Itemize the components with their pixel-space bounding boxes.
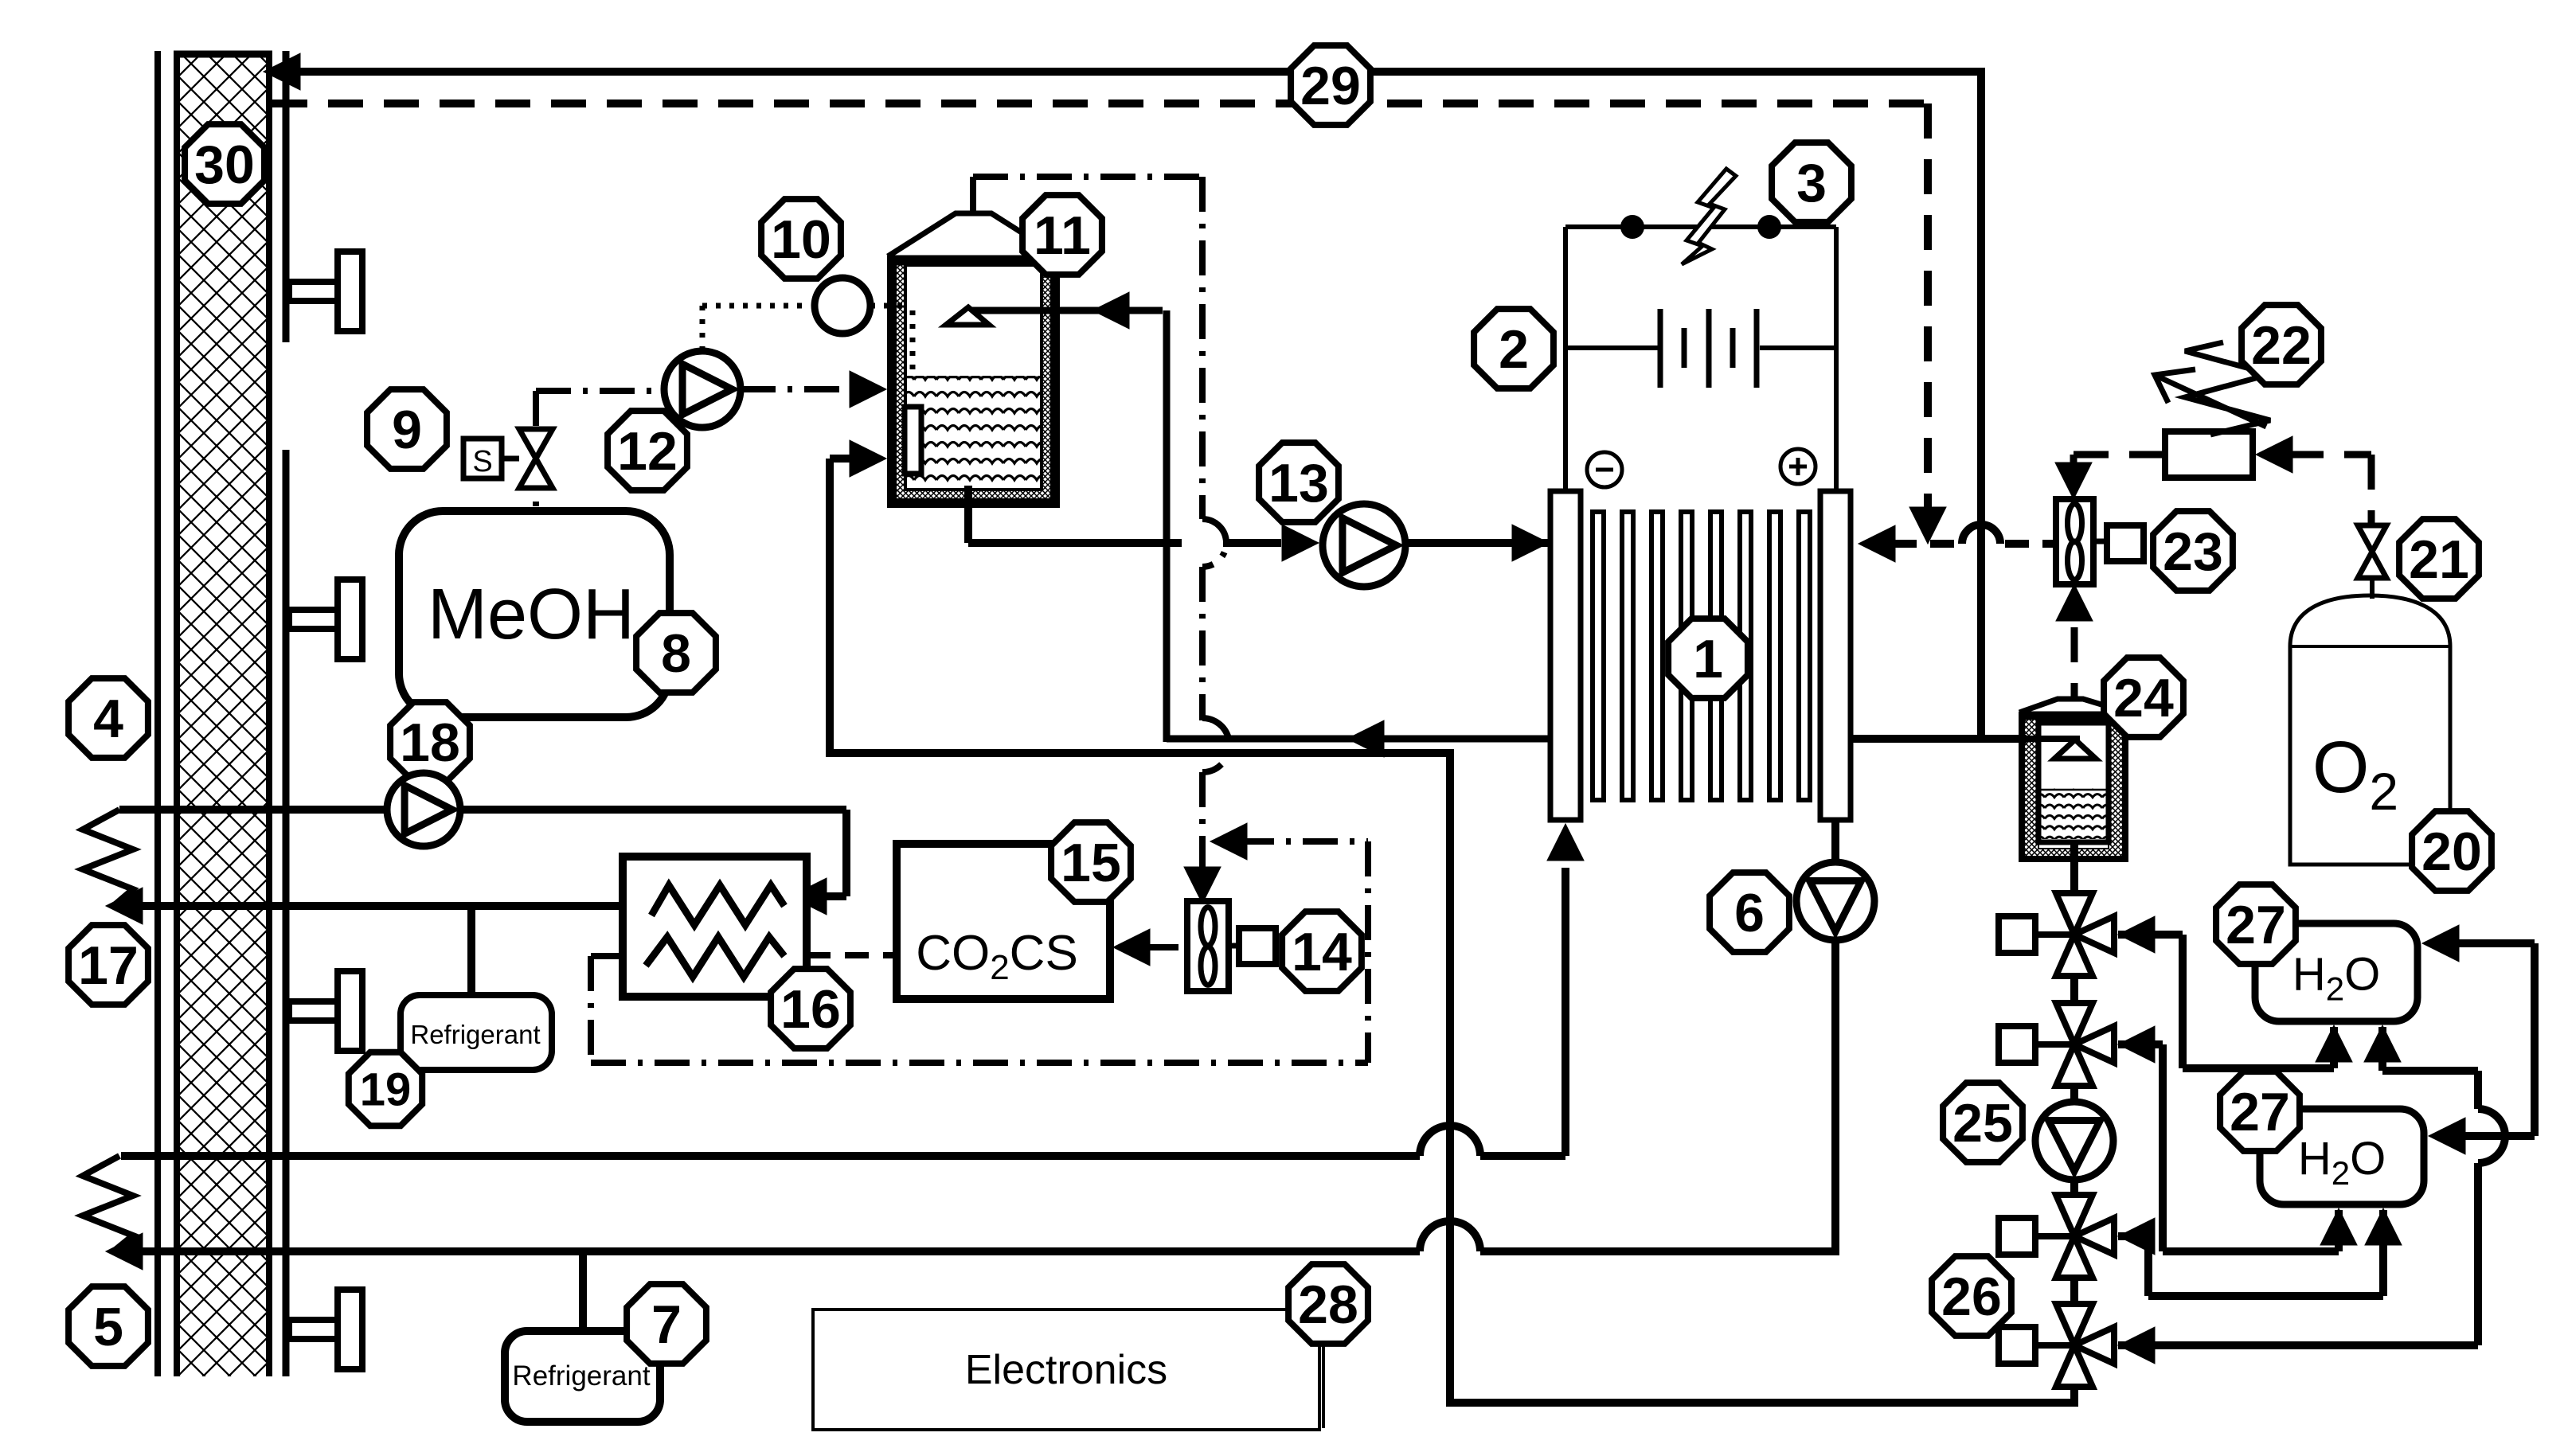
wire: separator 24 drain to valve 1 (2070, 865, 2078, 895)
arrowhead into heater 5 (106, 1233, 143, 1270)
label octagon 14 (1282, 911, 1362, 991)
three-way valve 3 of drain chain (2035, 1233, 2074, 1239)
label octagon 25 (1943, 1083, 2023, 1162)
svg-text:20: 20 (2421, 822, 2482, 882)
regulator 22 relief spring (2185, 342, 2270, 435)
wire: dashed HX to CO2CS (807, 952, 897, 958)
separator 24 inlet line (2013, 736, 2080, 742)
hull mounting bracket (289, 282, 338, 301)
svg-text:3: 3 (1796, 153, 1827, 213)
arrowhead left at fan corner (1210, 823, 1247, 860)
HX 16 top coil zigzag (651, 885, 784, 925)
arrowhead up into H2O1 bottom-right (2364, 1025, 2401, 1062)
arrowhead into CO2CS (1113, 929, 1150, 966)
arrowhead into tank 11 float line (1092, 292, 1129, 329)
svg-text:24: 24 (2113, 668, 2174, 728)
arrowhead into H2O1 right (2422, 925, 2459, 962)
solenoid valve 9 (463, 439, 502, 478)
wire: H2O right-side rail (2531, 943, 2539, 1136)
arrowhead into valve 1 (2118, 916, 2155, 953)
lightning bolt symbol (1682, 169, 1736, 264)
hull inner skin line (283, 51, 290, 342)
label octagon 26 (1932, 1256, 2011, 1336)
arrowhead into HX top coil (790, 878, 827, 915)
label octagon 15 (1051, 822, 1131, 902)
fan 14 motor square (1239, 928, 1276, 964)
fuel cell stack 1 left end plate (1550, 491, 1581, 820)
arrowhead into stack anode inlet (1512, 525, 1549, 561)
fuel cell stack 1 fins (1593, 512, 1604, 800)
wire: line 29 solid exhaust pipe (291, 72, 1981, 739)
heat exchanger 16 shell (623, 857, 807, 997)
svg-text:30: 30 (194, 135, 255, 195)
label octagon 10 (761, 199, 841, 279)
wire: pump25-valve3 link (2070, 1180, 2078, 1196)
wire: stack cathode outlet to separator 24 (1851, 735, 2027, 743)
arrowhead down into fan 14 (1184, 867, 1221, 904)
separator 24 roof (2019, 699, 2128, 712)
wire: dotted dip tube (inner) (910, 310, 916, 373)
label octagon 29 (1291, 45, 1370, 125)
wire: valve3-valve4 link (2070, 1276, 2078, 1306)
pump 25 (2035, 1102, 2113, 1180)
tank 11 hatched wall (888, 256, 1059, 507)
label octagon 18 (390, 702, 470, 782)
wire: dash-dot from HX bottom coil (591, 953, 646, 959)
pump 13 (1323, 504, 1405, 587)
wire: refrigerant 7 branch (579, 1251, 587, 1331)
label octagon 20 (2412, 811, 2492, 891)
svg-text:16: 16 (780, 979, 841, 1040)
label octagon 4 (68, 678, 148, 758)
wire: pump 6 return line to heater 5 (137, 1247, 1420, 1255)
HX 16 bottom coil zigzag (646, 937, 784, 977)
hull mounting bracket (289, 1320, 338, 1339)
terminal dot right (1757, 215, 1781, 239)
arrowhead up into fan 23 bottom (2056, 584, 2093, 621)
svg-text:Refrigerant: Refrigerant (410, 1020, 540, 1049)
wire: valve 1 feed from H2O tank (2118, 931, 2183, 939)
tank 11 top plate (888, 256, 1059, 266)
wire: dash-dot return line to fan 14 corner (1239, 838, 1368, 845)
separator 24 hatched wall (2019, 712, 2128, 861)
svg-text:4: 4 (93, 689, 123, 749)
terminal dot left (1620, 215, 1644, 239)
label octagon 27a (2216, 884, 2296, 964)
svg-text:7: 7 (651, 1294, 682, 1355)
pressure regulator 22 (2165, 431, 2253, 478)
pump 6 (1796, 862, 1874, 940)
arrowhead into regulator 22 (2256, 436, 2292, 473)
wire: dashed O2 from tank 21 to regulator 22 (2368, 455, 2375, 525)
tank 11 liquid (907, 376, 1040, 488)
svg-text:10: 10 (771, 209, 831, 270)
label octagon 2 (1474, 309, 1554, 388)
wire: anode feed line (heater 5 to stack) (121, 1152, 1420, 1160)
fan 23 motor square (2107, 525, 2144, 561)
arrowhead up into stack anode bottom (1547, 824, 1584, 861)
arrowhead up into H2O1 bottom-left (2316, 1025, 2352, 1062)
wire: tank outlet stub through bottom wall (964, 486, 972, 525)
separator 24 top plate (2019, 712, 2128, 720)
wire: dotted dip tube in tank 11 (870, 303, 913, 309)
svg-text:22: 22 (2251, 315, 2312, 376)
svg-text:25: 25 (1952, 1093, 2013, 1153)
svg-text:Electronics: Electronics (965, 1347, 1167, 1393)
svg-text:MeOH: MeOH (428, 575, 635, 654)
svg-text:18: 18 (400, 712, 460, 773)
wire: coolant supply line (heater 17 to pump 18 to HX 16) (119, 806, 387, 814)
hull insulation band 30 (hatched) (174, 51, 272, 1376)
arrowhead on anode return (left) (1347, 720, 1384, 757)
hull outer skin line (154, 51, 161, 1376)
pump 18 (387, 773, 460, 846)
battery 2 plates (1658, 309, 1663, 388)
wire: valve 4 feed from H2O tank (2118, 1341, 2478, 1349)
label octagon 3 (1772, 142, 1851, 222)
tank 11 roof (888, 213, 1059, 256)
arrowhead down into fan 23 (2055, 463, 2092, 499)
wire: dotted level signal pump12-sensor10 (700, 306, 706, 351)
label octagon 21 (2399, 519, 2479, 599)
wire: coolant return line (HX 16 to heater 17) (137, 902, 623, 910)
wire: fan 14 to CO2CS (dash-dot) (1143, 944, 1187, 950)
tank 11 float symbol (946, 307, 989, 325)
label octagon 17 (68, 925, 148, 1005)
wire: stack anode return to tank 11 (1167, 736, 1550, 743)
label octagon 13 (1259, 443, 1339, 522)
wire: stack to pump 6 (1831, 820, 1839, 862)
refrigerant box 7 (505, 1331, 660, 1422)
H2O tank 27b (2260, 1109, 2424, 1204)
arrowhead into stack cathode (dashed) (1859, 525, 1895, 562)
arrowhead into valve 2 (2118, 1026, 2155, 1063)
label octagon 9 (367, 389, 447, 469)
fan 23 (2056, 499, 2093, 584)
label octagon 6 (1710, 872, 1789, 952)
sensor 10 circle (815, 278, 870, 334)
heater 17 zigzag element (83, 810, 133, 908)
wire: tank 11 outlet to pump 13 (964, 503, 972, 543)
wire: MeOH feed (dash-dot) through valve 9 to pump 12 (533, 391, 539, 511)
MeOH tank 8 (399, 511, 670, 717)
svg-text:Refrigerant: Refrigerant (512, 1360, 650, 1392)
wire: dashed separator 24 to fan 23 (2071, 627, 2078, 697)
wire: dashed air line 29a (272, 100, 1928, 107)
wire: dash-dot riser x1718 (1365, 841, 1371, 1063)
svg-text:19: 19 (360, 1064, 412, 1116)
wire: anode return stub through tank wall (966, 307, 1071, 314)
wire: octagon 28 leader line (1322, 1343, 1325, 1428)
fan 14 (1187, 901, 1229, 991)
arrowhead into pump 13 (1282, 525, 1319, 561)
wire: stack terminal leads (1563, 227, 1568, 491)
label octagon 16 (771, 969, 850, 1048)
tank 11 level sensor bar (905, 407, 921, 474)
svg-text:13: 13 (1268, 453, 1329, 513)
hull mounting bracket (289, 610, 338, 629)
wire: refrigerant 19 branch (467, 906, 475, 995)
O2 tank 20 (2290, 595, 2450, 865)
label octagon 19 (349, 1052, 422, 1126)
svg-text:23: 23 (2163, 521, 2223, 582)
arrowhead MeOH into tank 11 (850, 371, 886, 408)
heater 5 zigzag element (83, 1156, 133, 1253)
label octagon 12 (608, 411, 687, 490)
label octagon 11 (1022, 195, 1102, 275)
arrowhead up into H2O2 bottom-left (2320, 1208, 2357, 1245)
hull mounting bracket (289, 1001, 338, 1021)
arrowhead into valve 3 (2118, 1218, 2155, 1255)
arrowhead into H2O2 right (2429, 1118, 2465, 1154)
svg-text:6: 6 (1734, 883, 1765, 943)
wire: dashed regulator 22 to fan 23 (2074, 451, 2165, 459)
fuel cell stack 1 right end plate (1820, 491, 1851, 820)
svg-text:9: 9 (392, 400, 422, 460)
label octagon 8 (636, 613, 716, 693)
wire: dash-dot control line from tank 11 apex (970, 177, 976, 213)
svg-text:26: 26 (1941, 1267, 2002, 1327)
H2O tank 27a (2255, 923, 2418, 1021)
svg-text:17: 17 (78, 935, 139, 996)
svg-text:14: 14 (1292, 922, 1352, 982)
arrowhead down on dashed air line (1909, 507, 1946, 544)
label octagon 30 (185, 124, 264, 204)
label octagon 7 (627, 1284, 706, 1364)
wire: recovered water return line (2070, 1385, 2078, 1403)
svg-text:27: 27 (2226, 895, 2286, 955)
label octagon 1 (1668, 619, 1748, 698)
arrowhead up into H2O2 bottom-right (2365, 1208, 2402, 1245)
svg-text:12: 12 (617, 421, 678, 482)
svg-text:27: 27 (2230, 1082, 2290, 1142)
svg-text:5: 5 (93, 1297, 123, 1357)
svg-text:S: S (472, 445, 492, 478)
svg-text:2: 2 (1499, 319, 1529, 380)
O2 bottle valve 21 (2358, 525, 2386, 552)
pump 12 (664, 351, 741, 427)
arrowhead into heater 17 (106, 888, 143, 924)
separator 24 liquid (2040, 788, 2107, 839)
three-way valve 4 of drain chain (2035, 1342, 2074, 1349)
arrowhead into hull (line 29) (264, 53, 300, 90)
wire: valve 3 feed from H2O tank (2118, 1232, 2148, 1240)
minus terminal circle (1587, 452, 1622, 487)
plus terminal circle (1780, 449, 1816, 484)
svg-text:28: 28 (1298, 1274, 1358, 1335)
wire: pump 13 to stack anode inlet (1405, 539, 1549, 547)
fan 14 motor link (1229, 943, 1239, 949)
label octagon 28 (1288, 1264, 1368, 1344)
wire: pump 12 to tank 11 (dash-dot) (741, 386, 856, 392)
svg-text:8: 8 (661, 623, 691, 684)
wire: separator drain stub through bottom wall (2070, 840, 2078, 872)
arrowhead water return into tank 11 (850, 440, 886, 477)
wire: valve 2 feed from H2O tank (2118, 1040, 2163, 1048)
label octagon 23 (2153, 511, 2233, 591)
label octagon 22 (2242, 305, 2321, 384)
fan 23 motor link (2093, 539, 2107, 545)
svg-text:29: 29 (1300, 56, 1361, 116)
wire: valve2-pump25 link (2070, 1084, 2078, 1102)
CO2CS box 15 (897, 844, 1110, 999)
label octagon 27b (2220, 1072, 2300, 1151)
svg-text:15: 15 (1061, 833, 1121, 893)
arrowhead into valve 4 (2118, 1327, 2155, 1364)
battery 2 wiring (1565, 345, 1658, 350)
wire: valve1-valve2 link (2070, 974, 2078, 1005)
three-way valve 1 of drain chain (2035, 931, 2074, 938)
wire: dashed cathode inlet header (1893, 540, 1962, 548)
svg-text:21: 21 (2409, 529, 2469, 590)
svg-text:1: 1 (1693, 629, 1723, 689)
svg-text:11: 11 (1034, 205, 1091, 266)
three-way valve 2 of drain chain (2035, 1041, 2074, 1048)
separator 24 float symbol (2054, 740, 2096, 759)
label octagon 5 (68, 1286, 148, 1366)
wire: dash-dot bottom run y1335 (591, 1060, 1368, 1066)
label octagon 24 (2104, 658, 2183, 737)
refrigerant box 19 (401, 995, 552, 1070)
electronics box 28 (813, 1310, 1319, 1430)
